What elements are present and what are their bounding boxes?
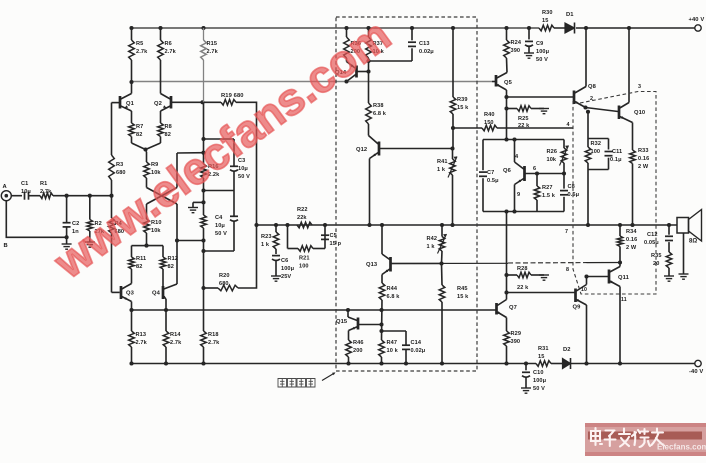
resistor R36 [344, 28, 361, 62]
ground R28 [539, 275, 549, 280]
svg-text:R47: R47 [387, 340, 398, 346]
ground R35 [664, 276, 674, 281]
resistor R16 [201, 164, 220, 178]
svg-text:2 W: 2 W [638, 164, 649, 170]
resistor R18 [201, 331, 220, 364]
svg-text:7: 7 [565, 229, 568, 235]
transistor Q7 [496, 300, 517, 332]
speaker 8 ohm [677, 210, 702, 245]
svg-text:Q8: Q8 [588, 84, 597, 90]
capacitor C10 [522, 361, 547, 392]
svg-text:Q13: Q13 [366, 262, 378, 268]
capacitor C11 [605, 139, 623, 170]
transistor Q6 [503, 137, 564, 213]
wire bottom -40V rail [132, 363, 696, 365]
logo elecfans bottom right [585, 423, 706, 456]
svg-text:10k: 10k [547, 157, 557, 163]
wire Q4 collector column [175, 204, 204, 284]
svg-text:6.8 k: 6.8 k [373, 111, 387, 117]
wire C1 to R1 [29, 195, 40, 197]
resistor R10 [144, 204, 162, 248]
svg-text:C6: C6 [281, 258, 288, 264]
ground R25 [539, 109, 549, 114]
resistor R40 [453, 112, 573, 131]
svg-text:100: 100 [591, 149, 601, 155]
svg-text:680: 680 [116, 170, 126, 176]
svg-text:C1: C1 [21, 181, 28, 187]
wire R10 to R17/R12 [132, 245, 164, 247]
resistor below ground tap [201, 215, 207, 228]
svg-text:100μ: 100μ [536, 49, 550, 55]
svg-text:R24: R24 [511, 40, 522, 46]
svg-text:11: 11 [621, 297, 627, 303]
wire node A to crossover [177, 152, 204, 154]
capacitor C5 [321, 225, 342, 249]
wire Q7 collector to Q9 base [507, 292, 575, 294]
svg-text:R42: R42 [427, 236, 438, 242]
svg-text:C9: C9 [536, 41, 543, 47]
svg-text:82: 82 [136, 132, 142, 138]
svg-text:B: B [4, 243, 8, 249]
svg-text:R26: R26 [547, 149, 558, 155]
node top rail taps [344, 26, 414, 30]
arrow to driver box [322, 372, 336, 380]
resistor R44 [379, 283, 400, 340]
resistor R2 [87, 196, 105, 242]
wire speaker to ground [683, 233, 685, 274]
node bottom rail left junctions [129, 361, 205, 365]
svg-text:R6: R6 [165, 41, 172, 47]
resistor R25 [507, 106, 545, 130]
svg-text:25V: 25V [281, 274, 291, 280]
resistor R27 [534, 171, 556, 211]
wire Q5 collector to Q8 base [507, 96, 574, 98]
resistor R33 [630, 148, 650, 227]
resistor R20 [204, 225, 257, 291]
svg-text:6: 6 [533, 166, 536, 172]
svg-text:390: 390 [511, 339, 521, 345]
svg-text:R15: R15 [207, 41, 218, 47]
svg-text:Q3: Q3 [126, 291, 135, 297]
svg-text:R40: R40 [484, 112, 495, 118]
svg-text:R22: R22 [297, 207, 308, 213]
svg-text:22 k: 22 k [518, 123, 530, 129]
svg-text:Q4: Q4 [152, 291, 161, 297]
resistor R7 [129, 123, 146, 150]
svg-text:2.7k: 2.7k [40, 189, 52, 195]
resistor R23 [261, 225, 279, 254]
svg-text:R3: R3 [116, 162, 123, 168]
svg-text:Q11: Q11 [618, 275, 630, 281]
terminal -40V [689, 360, 703, 375]
resistor R13 [129, 310, 148, 364]
svg-text:0.02μ: 0.02μ [419, 49, 434, 55]
svg-text:2.7k: 2.7k [170, 340, 182, 346]
svg-text:R18: R18 [208, 332, 219, 338]
svg-text:C14: C14 [411, 340, 422, 346]
transistor Q5 [492, 58, 513, 142]
svg-text:0.02μ: 0.02μ [411, 348, 426, 354]
wire Q13-base to Q11-collector line [391, 263, 621, 264]
resistor R9 [144, 150, 162, 188]
wire input return B [6, 201, 68, 240]
svg-text:150: 150 [484, 120, 494, 126]
wire driver column [504, 212, 508, 300]
svg-text:15 k: 15 k [457, 294, 469, 300]
svg-text:Q10: Q10 [634, 110, 645, 116]
svg-text:R19 680: R19 680 [221, 93, 244, 99]
svg-text:R31: R31 [538, 346, 549, 352]
svg-text:3: 3 [638, 84, 641, 90]
wire column to R18 [201, 228, 205, 331]
resistor R8 [146, 123, 172, 150]
resistor R1 [40, 181, 53, 199]
svg-text:100μ: 100μ [281, 266, 295, 272]
svg-text:Q6: Q6 [503, 168, 512, 174]
node bottom rail mid junctions [346, 361, 444, 365]
transistor Q2 [154, 60, 203, 123]
diode D2 [563, 347, 571, 369]
ground C10 [521, 388, 531, 393]
wire Q8 emitter to Q10 base [586, 108, 619, 114]
wire mid output rail [257, 224, 678, 226]
svg-text:1.5 k: 1.5 k [542, 193, 556, 199]
svg-text:R5: R5 [136, 41, 143, 47]
wire top +40V rail [132, 27, 696, 29]
svg-text:15: 15 [542, 18, 548, 24]
transistor Q12 [356, 136, 453, 228]
svg-text:0.1μ: 0.1μ [610, 157, 622, 163]
capacitor C12 [644, 223, 673, 252]
resistor R3 [109, 103, 126, 196]
resistor R12 [160, 246, 178, 286]
ground C2 [62, 244, 72, 249]
capacitor C3 [204, 139, 251, 191]
resistor R42 variable [427, 223, 447, 266]
resistor R29 [504, 331, 521, 366]
svg-text:82: 82 [168, 264, 174, 270]
svg-text:4: 4 [567, 122, 570, 128]
node R3/R4 column tap [109, 194, 113, 198]
svg-text:C7: C7 [487, 170, 494, 176]
ground C9 [524, 53, 534, 58]
svg-text:Q7: Q7 [509, 305, 517, 311]
svg-text:Q5: Q5 [504, 80, 513, 86]
svg-text:1 k: 1 k [427, 244, 436, 250]
resistor R28 [507, 266, 545, 291]
resistor R19 [200, 93, 243, 105]
svg-text:R45: R45 [457, 286, 468, 292]
wire input node line [53, 195, 112, 197]
svg-text:R29: R29 [511, 331, 522, 337]
diode D1 [565, 12, 575, 34]
svg-text:A: A [3, 184, 8, 190]
input terminal A [1, 184, 11, 249]
resistor R22 [297, 207, 312, 228]
svg-text:R11: R11 [136, 256, 146, 262]
wire bias network bottom [483, 211, 564, 213]
resistor R46 [346, 340, 364, 364]
transistor Q10 [619, 28, 645, 150]
svg-text:82: 82 [165, 132, 171, 138]
capacitor C6 [272, 256, 295, 280]
resistor R5 [129, 26, 148, 84]
svg-text:C8: C8 [568, 184, 575, 190]
transistor Q3 [119, 284, 134, 311]
svg-text:-40 V: -40 V [689, 369, 703, 375]
capacitor C14 [382, 331, 426, 364]
svg-text:Q15: Q15 [336, 319, 348, 325]
ground R2 [85, 242, 95, 247]
resistor R39 [450, 26, 469, 151]
dashed output module box [565, 84, 656, 294]
svg-text:R20: R20 [219, 273, 230, 279]
svg-text:50 V: 50 V [215, 231, 227, 237]
svg-text:R28: R28 [517, 266, 528, 272]
svg-text:2: 2 [590, 96, 593, 102]
svg-text:R21: R21 [299, 256, 310, 262]
ground speaker [679, 274, 689, 279]
svg-text:Q12: Q12 [356, 147, 367, 153]
svg-text:6.8 k: 6.8 k [387, 294, 401, 300]
dashed driver-circuit box [336, 17, 477, 371]
transistor Q11 [584, 263, 629, 366]
node R2 tap [88, 194, 92, 198]
svg-text:R27: R27 [542, 185, 553, 191]
capacitor C9 [525, 28, 550, 63]
resistor R47 [379, 340, 399, 364]
svg-text:50 V: 50 V [536, 57, 548, 63]
svg-text:82: 82 [136, 264, 142, 270]
node bias box bottom [504, 209, 508, 213]
svg-text:R13: R13 [136, 332, 147, 338]
svg-text:10μ: 10μ [21, 189, 31, 195]
svg-text:Elecfans.com: Elecfans.com [657, 443, 706, 452]
wire Q1-collector rail to Q5 base [132, 81, 493, 83]
resistor R14 [163, 310, 182, 364]
resistor R11 [129, 246, 147, 284]
resistor R45 [439, 264, 469, 364]
svg-text:0.16: 0.16 [626, 237, 637, 243]
svg-text:22 k: 22 k [517, 285, 529, 291]
node C2 tap [65, 194, 69, 198]
resistor R34 [617, 223, 637, 265]
svg-text:R1: R1 [40, 181, 47, 187]
resistor R30 [539, 10, 554, 31]
transistor Q15 [336, 308, 382, 340]
svg-text:50 V: 50 V [238, 174, 250, 180]
svg-text:R7: R7 [136, 124, 143, 130]
capacitor C8 [560, 171, 580, 211]
svg-text:680: 680 [219, 281, 229, 287]
svg-text:+40 V: +40 V [689, 17, 705, 23]
svg-text:R32: R32 [591, 141, 602, 147]
wire bias column lower [201, 178, 205, 215]
wire R19 to mid rail [236, 102, 259, 227]
wire feedback line Q3/Q4 emitters to Q7 base [132, 309, 497, 311]
svg-text:100μ: 100μ [533, 378, 547, 384]
svg-text:0.16: 0.16 [638, 156, 649, 162]
transistor Q1 [112, 82, 135, 123]
transistor Q13 [366, 223, 442, 283]
capacitor C1 [21, 181, 31, 200]
svg-text:R23: R23 [261, 234, 272, 240]
svg-text:50 V: 50 V [533, 386, 545, 392]
svg-text:R8: R8 [165, 124, 172, 130]
svg-text:R46: R46 [353, 340, 364, 346]
node mid rail taps [274, 223, 327, 227]
svg-text:R44: R44 [387, 286, 398, 292]
transistor Q8 [574, 28, 597, 110]
svg-text:R14: R14 [170, 332, 181, 338]
svg-text:Q2: Q2 [154, 101, 162, 107]
svg-text:R12: R12 [168, 256, 179, 262]
terminal +40V [689, 17, 705, 31]
svg-text:8: 8 [566, 267, 569, 273]
resistor R21 [288, 225, 326, 270]
capacitor C4 [204, 191, 239, 252]
resistor R35 [651, 252, 672, 276]
svg-text:R41: R41 [437, 159, 448, 165]
svg-text:10: 10 [581, 287, 587, 293]
transistor Q9 [573, 277, 589, 366]
svg-text:2 W: 2 W [626, 245, 637, 251]
capacitor C7 [479, 140, 499, 212]
svg-text:2.7k: 2.7k [165, 49, 177, 55]
resistor R38 [366, 72, 387, 136]
svg-text:2.7k: 2.7k [136, 49, 148, 55]
svg-text:1 k: 1 k [261, 242, 270, 248]
capacitor C13 [369, 28, 435, 61]
resistor R41 variable [437, 149, 457, 228]
svg-text:10μ: 10μ [215, 223, 225, 229]
svg-text:R38: R38 [373, 103, 384, 109]
svg-text:0.05μ: 0.05μ [644, 240, 659, 246]
resistor R4 [109, 196, 124, 293]
capacitor C2 [63, 196, 80, 244]
resistor R15 [201, 26, 219, 102]
svg-text:Q1: Q1 [126, 101, 135, 107]
svg-text:D1: D1 [566, 12, 574, 18]
svg-text:22k: 22k [297, 215, 307, 221]
svg-text:R25: R25 [518, 116, 529, 122]
resistor R26 variable [547, 140, 569, 174]
svg-text:100: 100 [299, 264, 309, 270]
label driver-circuit (CJK) [278, 379, 315, 388]
resistor R24 [504, 28, 522, 58]
svg-text:15 k: 15 k [457, 105, 469, 111]
svg-text:2.7k: 2.7k [136, 340, 148, 346]
ground C6 [271, 276, 281, 281]
svg-text:D2: D2 [563, 347, 571, 353]
svg-text:2.7k: 2.7k [208, 340, 220, 346]
wire crossover to R10 [147, 153, 178, 204]
svg-text:R33: R33 [638, 148, 649, 154]
transistor Q4 [129, 284, 177, 312]
wire R9 cross to Q4 column [147, 188, 178, 205]
watermark www.elecfans.com [44, 9, 400, 289]
svg-text:390: 390 [511, 48, 521, 54]
wire bias network top [483, 139, 564, 141]
svg-text:R39: R39 [457, 97, 468, 103]
svg-text:C4: C4 [215, 215, 223, 221]
resistor R37 [366, 28, 385, 72]
svg-text:2.7k: 2.7k [207, 49, 219, 55]
wire input to C1 [11, 195, 22, 197]
svg-text:R34: R34 [626, 229, 637, 235]
resistor R31 [536, 346, 551, 366]
svg-text:C13: C13 [419, 41, 430, 47]
svg-text:200: 200 [353, 348, 363, 354]
transistor Q14 [335, 62, 371, 84]
node R7/R8 junction [143, 147, 147, 151]
resistor R6 [158, 26, 177, 60]
svg-text:Q9: Q9 [573, 305, 582, 311]
svg-text:1 k: 1 k [437, 167, 446, 173]
svg-text:15: 15 [538, 354, 544, 360]
svg-text:R30: R30 [542, 10, 553, 16]
svg-text:0.5μ: 0.5μ [487, 178, 499, 184]
svg-text:10 k: 10 k [387, 348, 399, 354]
resistor R32 [585, 112, 608, 227]
wire bias column [201, 102, 205, 164]
svg-text:C11: C11 [612, 149, 622, 155]
svg-text:C10: C10 [533, 370, 544, 376]
node top rail right taps [504, 26, 631, 30]
svg-text:9: 9 [517, 192, 520, 198]
ground bias tap [188, 202, 204, 212]
svg-text:8Ω: 8Ω [689, 239, 697, 245]
